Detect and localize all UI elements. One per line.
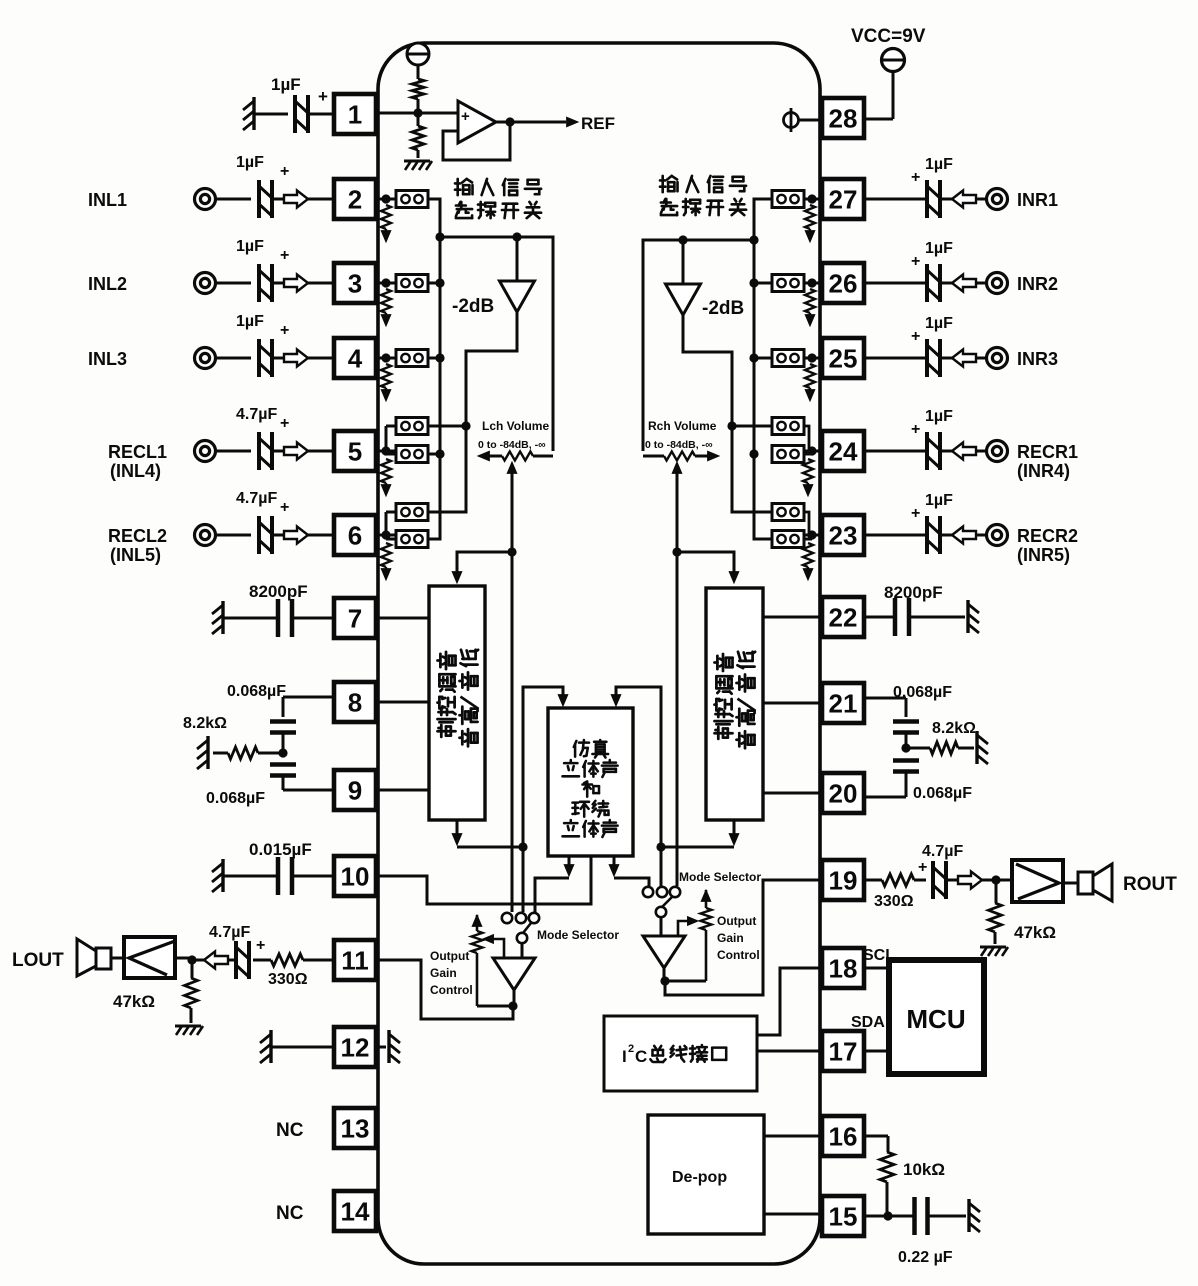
wire surround left output to selector — [568, 856, 571, 868]
capacitor 1µF at pin 27 (right) — [925, 180, 929, 218]
svg-text:27: 27 — [829, 185, 858, 215]
mode selector contacts (left) — [502, 913, 512, 923]
svg-text:1µF: 1µF — [925, 408, 953, 425]
output amp feedback and node (left) — [513, 990, 516, 1006]
svg-text:13: 13 — [341, 1114, 370, 1144]
wire tone output to mode line (right) — [733, 820, 736, 838]
svg-text:28: 28 — [829, 104, 858, 134]
internal bias resistor lower — [412, 126, 424, 150]
pulldown resistor with arrow at pin 23 — [803, 543, 813, 567]
output gain control resistor (right) — [701, 890, 711, 901]
pin 17 — [822, 1031, 864, 1071]
wire output to pin 11 — [376, 960, 513, 1019]
pulldown resistor with arrow at pin 4 — [381, 364, 391, 388]
pulldown resistor with arrow at pin 26 — [805, 289, 815, 313]
pin 28 — [822, 98, 864, 138]
svg-text:+: + — [280, 499, 289, 516]
svg-text:Output: Output — [717, 914, 756, 928]
capacitor 1uF at pin 1 with ground — [252, 97, 255, 130]
svg-text:-2dB: -2dB — [702, 298, 744, 319]
svg-text:-2dB: -2dB — [452, 296, 494, 317]
LOUT output network: 330 ohm, 4.7uF, 47k, amp, speaker — [315, 959, 334, 962]
svg-text:1µF: 1µF — [925, 492, 953, 509]
node at pin 1 line — [413, 108, 422, 117]
pin 10 — [334, 856, 376, 896]
right input bus wire — [754, 199, 772, 539]
svg-text:5: 5 — [348, 437, 362, 467]
svg-text:0 to -84dB, -∞: 0 to -84dB, -∞ — [478, 439, 546, 451]
svg-text:0.22 µF: 0.22 µF — [898, 1249, 953, 1266]
pin 5 — [334, 431, 376, 471]
svg-text:9: 9 — [348, 776, 362, 806]
phi symbol at pin 28 — [784, 113, 799, 128]
svg-text:RECL1: RECL1 — [108, 442, 167, 462]
capacitor 8200pF at pin 22 with ground — [864, 616, 894, 619]
pin 21 — [822, 683, 864, 723]
svg-text:15: 15 — [829, 1202, 858, 1232]
svg-text:8.2kΩ: 8.2kΩ — [183, 715, 227, 732]
capacitor 1µF at pin 2 — [216, 198, 251, 201]
svg-text:LOUT: LOUT — [12, 950, 64, 971]
svg-text:330Ω: 330Ω — [874, 893, 914, 910]
svg-text:I: I — [622, 1047, 627, 1066]
capacitor 1µF at pin 25 (right) — [925, 339, 929, 377]
record select switches at pin 23 — [804, 534, 822, 537]
svg-text:22: 22 — [829, 603, 858, 633]
Rch volume wiper — [676, 470, 679, 552]
svg-text:26: 26 — [829, 269, 858, 299]
svg-text:1µF: 1µF — [925, 240, 953, 257]
signal arrow into pin 23 (right) — [864, 534, 928, 537]
capacitor 0.22uF at pin 15 with ground — [864, 1215, 913, 1218]
input connector RECR1 — [987, 441, 1008, 462]
pin 7 — [334, 598, 376, 638]
pulldown resistor with arrow at pin 3 — [381, 289, 391, 313]
svg-text:0.068µF: 0.068µF — [206, 790, 265, 807]
pin 13 — [334, 1108, 376, 1148]
pin 3 — [334, 263, 376, 303]
wire tone output to mode line (left) — [456, 820, 459, 838]
label input select switch (left) — [455, 179, 473, 195]
resistor 47k at LOUT — [191, 960, 194, 978]
pin 25 — [822, 338, 864, 378]
svg-text:RECR2: RECR2 — [1017, 526, 1078, 546]
svg-text:+: + — [911, 253, 920, 270]
svg-text:+: + — [911, 328, 920, 345]
wire wiper down to selector (right) — [676, 552, 679, 886]
wire I2C to pin 17 — [757, 1050, 822, 1053]
svg-text:21: 21 — [829, 689, 858, 719]
svg-text:RECL2: RECL2 — [108, 526, 167, 546]
wire De-pop to pin 16 — [764, 1135, 822, 1138]
Lch volume wiper — [511, 470, 514, 552]
tone control block left (bass/treble) — [429, 586, 485, 820]
amplifier block (ROUT) — [996, 879, 1012, 882]
REF output node and arrow — [496, 121, 566, 124]
wire bus to -2dB and volume (right) — [643, 240, 754, 451]
switch at pin 25 — [804, 357, 822, 360]
amplifier block (LOUT) — [124, 937, 175, 978]
svg-text:+: + — [911, 169, 920, 186]
pulldown resistor with arrow at pin 27 — [805, 205, 815, 229]
switch at pin 27 — [804, 198, 822, 201]
wire tone line down to selector (right) — [660, 847, 663, 886]
wire into surround right input — [616, 687, 661, 847]
wire surround right output to selector — [613, 856, 616, 868]
wire -2dB output to record switches (right) — [683, 315, 772, 512]
capacitor 8200pF at pin 7 with ground — [221, 601, 224, 634]
svg-text:20: 20 — [829, 779, 858, 809]
input connector INR3 — [987, 348, 1008, 369]
wire wiper down to selector (left) — [511, 552, 514, 912]
capacitor 4.7µF at pin 6 — [216, 534, 251, 537]
signal arrow into pin 6 — [273, 534, 284, 537]
pulldown resistor with arrow at pin 25 — [805, 364, 815, 388]
svg-text:+: + — [918, 859, 927, 876]
capacitor 1µF at pin 3 — [216, 282, 251, 285]
svg-text:1µF: 1µF — [236, 313, 264, 330]
wire into surround left input — [523, 687, 563, 847]
svg-text:+: + — [911, 505, 920, 522]
signal arrow into pin 5 — [273, 450, 284, 453]
ground at pin 12 (both sides) — [269, 1030, 272, 1063]
input connector RECL2 — [195, 525, 216, 546]
pin 22 — [822, 597, 864, 637]
svg-text:3: 3 — [348, 269, 362, 299]
svg-text:25: 25 — [829, 344, 858, 374]
svg-text:Control: Control — [717, 948, 760, 962]
pins 8/9 tone network: 0.068uF caps and 8.2k resistor — [283, 696, 334, 699]
record select switches at pin 24 — [804, 450, 822, 453]
wire wiper to tone control (right) — [677, 552, 734, 576]
svg-text:+: + — [318, 87, 328, 106]
pin 11 — [334, 940, 376, 980]
svg-text:RECR1: RECR1 — [1017, 442, 1078, 462]
label input select switch (right) — [660, 176, 678, 192]
svg-text:(INL5): (INL5) — [110, 545, 161, 565]
svg-text:4.7µF: 4.7µF — [236, 490, 277, 507]
op-amp buffer (REF) — [458, 101, 496, 143]
pin 26 — [822, 263, 864, 303]
svg-text:+: + — [280, 163, 289, 180]
switch S3 at pin 4 — [376, 357, 396, 360]
svg-text:Mode Selector: Mode Selector — [679, 870, 761, 884]
output gain control resistor (left) — [472, 915, 482, 926]
tone control block right (bass/treble) — [706, 588, 763, 820]
switch S2 at pin 3 — [376, 282, 396, 285]
svg-text:0.068µF: 0.068µF — [913, 785, 972, 802]
pin 9 — [334, 770, 376, 810]
svg-text:23: 23 — [829, 521, 858, 551]
wire surround center to pin 10 line — [376, 856, 591, 904]
capacitor 1µF at pin 23 (right) — [925, 516, 929, 554]
signal arrow into pin 4 — [273, 357, 284, 360]
gain wiper arrow (right) — [678, 921, 692, 936]
ground below bias resistor — [404, 160, 430, 163]
input connector INL3 — [195, 348, 216, 369]
svg-text:1µF: 1µF — [925, 315, 953, 332]
svg-text:4.7µF: 4.7µF — [922, 843, 963, 860]
svg-text:INL1: INL1 — [88, 190, 127, 210]
internal bias resistor upper — [417, 65, 420, 79]
ROUT output network: 330 ohm, 4.7uF, 47k, amp, speaker — [864, 879, 882, 882]
svg-text:47kΩ: 47kΩ — [113, 992, 155, 1011]
signal arrow into pin 2 — [273, 198, 284, 201]
svg-text:1µF: 1µF — [236, 238, 264, 255]
svg-text:(INL4): (INL4) — [110, 461, 161, 481]
svg-text:4.7µF: 4.7µF — [236, 406, 277, 423]
pin 23 — [822, 515, 864, 555]
svg-text:11: 11 — [341, 946, 369, 976]
wire De-pop to pin 15 — [764, 1213, 822, 1216]
pulldown resistor with arrow at pin 2 — [381, 205, 391, 229]
svg-text:330Ω: 330Ω — [268, 971, 308, 988]
pin 1 — [334, 94, 376, 134]
wire wiper to tone control (left) — [457, 552, 512, 576]
svg-text:De-pop: De-pop — [672, 1169, 727, 1186]
svg-text:0.068µF: 0.068µF — [893, 684, 952, 701]
svg-text:(INR4): (INR4) — [1017, 461, 1070, 481]
input connector INR2 — [987, 273, 1008, 294]
svg-text:8200pF: 8200pF — [249, 582, 308, 601]
signal arrow into pin 27 (right) — [864, 198, 928, 201]
svg-text:1: 1 — [348, 100, 362, 130]
pin 4 — [334, 338, 376, 378]
resistor 47k at ROUT — [995, 880, 998, 903]
pin 8 — [334, 682, 376, 722]
wire -2dB output to record switches (left) — [428, 312, 517, 512]
signal arrow into pin 24 (right) — [864, 450, 928, 453]
capacitor 4.7µF at pin 5 — [216, 450, 251, 453]
svg-text:4: 4 — [348, 344, 363, 374]
svg-text:17: 17 — [829, 1037, 858, 1067]
svg-text:Output: Output — [430, 949, 469, 963]
pin 24 — [822, 431, 864, 471]
pin 16 — [822, 1116, 864, 1156]
pin 15 — [822, 1196, 864, 1236]
svg-text:2: 2 — [348, 185, 362, 215]
pin 18 — [822, 948, 864, 988]
svg-text:C: C — [635, 1047, 647, 1066]
mode selector contacts (right) — [643, 887, 653, 897]
wire I2C to pin 18 — [757, 968, 822, 1035]
simulated stereo / surround block — [548, 708, 633, 856]
pin 6 — [334, 515, 376, 555]
svg-text:Gain: Gain — [430, 966, 457, 980]
signal arrow into pin 25 (right) — [864, 357, 928, 360]
svg-text:18: 18 — [829, 954, 858, 984]
svg-text:+: + — [256, 937, 265, 954]
svg-text:10kΩ: 10kΩ — [903, 1160, 945, 1179]
pin 19 — [822, 860, 864, 900]
capacitor 0.015uF at pin 10 with ground — [221, 859, 224, 892]
svg-text:Gain: Gain — [717, 931, 744, 945]
svg-text:8200pF: 8200pF — [884, 583, 943, 602]
pulldown resistor with arrow at pin 24 — [803, 459, 813, 483]
svg-text:INR1: INR1 — [1017, 190, 1058, 210]
svg-text:10: 10 — [341, 862, 370, 892]
svg-text:MCU: MCU — [906, 1004, 965, 1034]
output amp triangle (right) — [660, 917, 663, 936]
input connector INL2 — [195, 273, 216, 294]
svg-text:+: + — [280, 247, 289, 264]
svg-text:(INR5): (INR5) — [1017, 545, 1070, 565]
IC body U1 (28-pin audio processor) — [378, 43, 820, 1264]
switch at pin 26 — [804, 282, 822, 285]
signal arrow into pin 26 (right) — [864, 282, 928, 285]
svg-text:4.7µF: 4.7µF — [209, 924, 250, 941]
-2dB attenuator (right) — [682, 240, 685, 284]
-2dB attenuator (left) — [516, 237, 519, 281]
capacitor 1µF at pin 4 — [216, 357, 251, 360]
svg-text:Control: Control — [430, 983, 473, 997]
output amp feedback and node (right) — [663, 968, 666, 981]
svg-text:+: + — [911, 421, 920, 438]
wire tone line down to selector (left) — [522, 847, 525, 912]
svg-text:6: 6 — [348, 521, 362, 551]
left input bus wire — [428, 199, 440, 539]
pulldown resistor with arrow at pin 6 — [381, 543, 391, 567]
svg-text:0 to -84dB, -∞: 0 to -84dB, -∞ — [645, 439, 713, 451]
I2C bus interface block — [604, 1016, 757, 1091]
svg-text:1µF: 1µF — [925, 156, 953, 173]
MCU block — [864, 967, 888, 970]
svg-text:NC: NC — [276, 1203, 304, 1224]
capacitor 1µF at pin 24 (right) — [925, 432, 929, 470]
svg-text:INR2: INR2 — [1017, 274, 1058, 294]
svg-text:+: + — [280, 322, 289, 339]
input connector INR1 — [987, 189, 1008, 210]
svg-text:+: + — [461, 108, 470, 125]
wire output to pin 19 — [665, 880, 822, 995]
svg-text:INL3: INL3 — [88, 349, 127, 369]
svg-text:0.015µF: 0.015µF — [249, 840, 312, 859]
pin 20 — [822, 773, 864, 813]
svg-text:8.2kΩ: 8.2kΩ — [932, 720, 976, 737]
svg-text:2: 2 — [628, 1043, 634, 1055]
signal arrow into pin 3 — [273, 282, 284, 285]
svg-text:7: 7 — [348, 604, 362, 634]
svg-text:Lch Volume: Lch Volume — [482, 419, 549, 433]
svg-text:INR3: INR3 — [1017, 349, 1058, 369]
switch S1 at pin 2 — [376, 198, 396, 201]
svg-text:24: 24 — [829, 437, 858, 467]
speaker LOUT — [96, 948, 111, 969]
input connector RECR2 — [987, 525, 1008, 546]
output amp triangle (left) — [521, 943, 524, 958]
gain wiper arrow (left) — [489, 939, 504, 962]
svg-text:8: 8 — [348, 688, 362, 718]
svg-text:1µF: 1µF — [271, 75, 301, 94]
pins 21/20 tone network: 0.068uF caps and 8.2k resistor (right) — [864, 697, 906, 700]
svg-text:1µF: 1µF — [236, 154, 264, 171]
svg-text:VCC=9V: VCC=9V — [851, 26, 926, 47]
pulldown resistor with arrow at pin 5 — [381, 459, 391, 483]
svg-text:Mode Selector: Mode Selector — [537, 928, 619, 942]
svg-text:14: 14 — [341, 1197, 370, 1227]
svg-text:12: 12 — [341, 1033, 370, 1063]
internal bias: supply symbol at top — [407, 43, 429, 65]
input connector RECL1 — [195, 441, 216, 462]
svg-text:INL2: INL2 — [88, 274, 127, 294]
svg-text:REF: REF — [581, 114, 615, 133]
svg-text:ROUT: ROUT — [1123, 874, 1177, 895]
feedback loop of REF buffer — [443, 124, 510, 160]
svg-text:Rch Volume: Rch Volume — [648, 419, 717, 433]
svg-text:0.068µF: 0.068µF — [227, 683, 286, 700]
pin 27 — [822, 179, 864, 219]
wire bus to -2dB and volume (left) — [440, 237, 553, 451]
svg-text:47kΩ: 47kΩ — [1014, 923, 1056, 942]
record select switches at pin 6 — [376, 534, 396, 537]
svg-text:+: + — [280, 415, 289, 432]
svg-text:NC: NC — [276, 1120, 304, 1141]
pin 12 — [334, 1027, 376, 1067]
record select switches at pin 5 — [376, 450, 396, 453]
resistor 10k at pin 16 — [864, 1135, 888, 1138]
capacitor 1µF at pin 26 (right) — [925, 264, 929, 302]
De-pop block — [648, 1115, 764, 1234]
svg-text:16: 16 — [829, 1122, 858, 1152]
speaker ROUT — [1063, 882, 1078, 885]
svg-text:SDA: SDA — [851, 1014, 885, 1031]
svg-text:19: 19 — [829, 866, 858, 896]
pin 14 — [334, 1191, 376, 1231]
pin 2 — [334, 179, 376, 219]
input connector INL1 — [195, 189, 216, 210]
